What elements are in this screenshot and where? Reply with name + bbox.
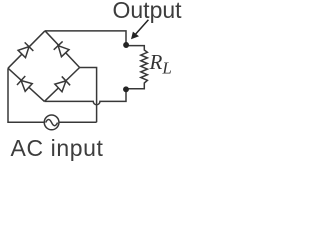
wire diamond edge bottom-right (44, 68, 79, 102)
wire diamond edge bottom-left (8, 68, 44, 101)
diode D3 bottom-left (17, 76, 33, 92)
wire bottom rail right of source (59, 121, 97, 123)
label Output (113, 0, 182, 24)
label AC input (11, 135, 104, 162)
label RL (150, 52, 172, 76)
node dot output top (123, 42, 129, 48)
diode D4 bottom-right (54, 76, 70, 92)
node dot output bottom (123, 86, 129, 92)
wire diamond edge top-left (8, 31, 45, 68)
wire top rail from top vertex to output node (45, 31, 126, 45)
diode D1 top-left (17, 42, 33, 58)
resistor RL zigzag (126, 46, 147, 89)
wire bottom rail left of source and left rail up to left vertex (8, 68, 44, 122)
diode D2 top-right (54, 41, 70, 57)
wire from bottom node down then left to bottom vertex with crossover hop (44, 89, 126, 104)
arrow from Output label to top node (131, 20, 148, 40)
wire right vertex to bottom rail corner (80, 68, 97, 123)
AC source sine symbol (46, 120, 58, 126)
wire diamond edge top-right (45, 31, 80, 68)
AC source circle (44, 115, 59, 130)
